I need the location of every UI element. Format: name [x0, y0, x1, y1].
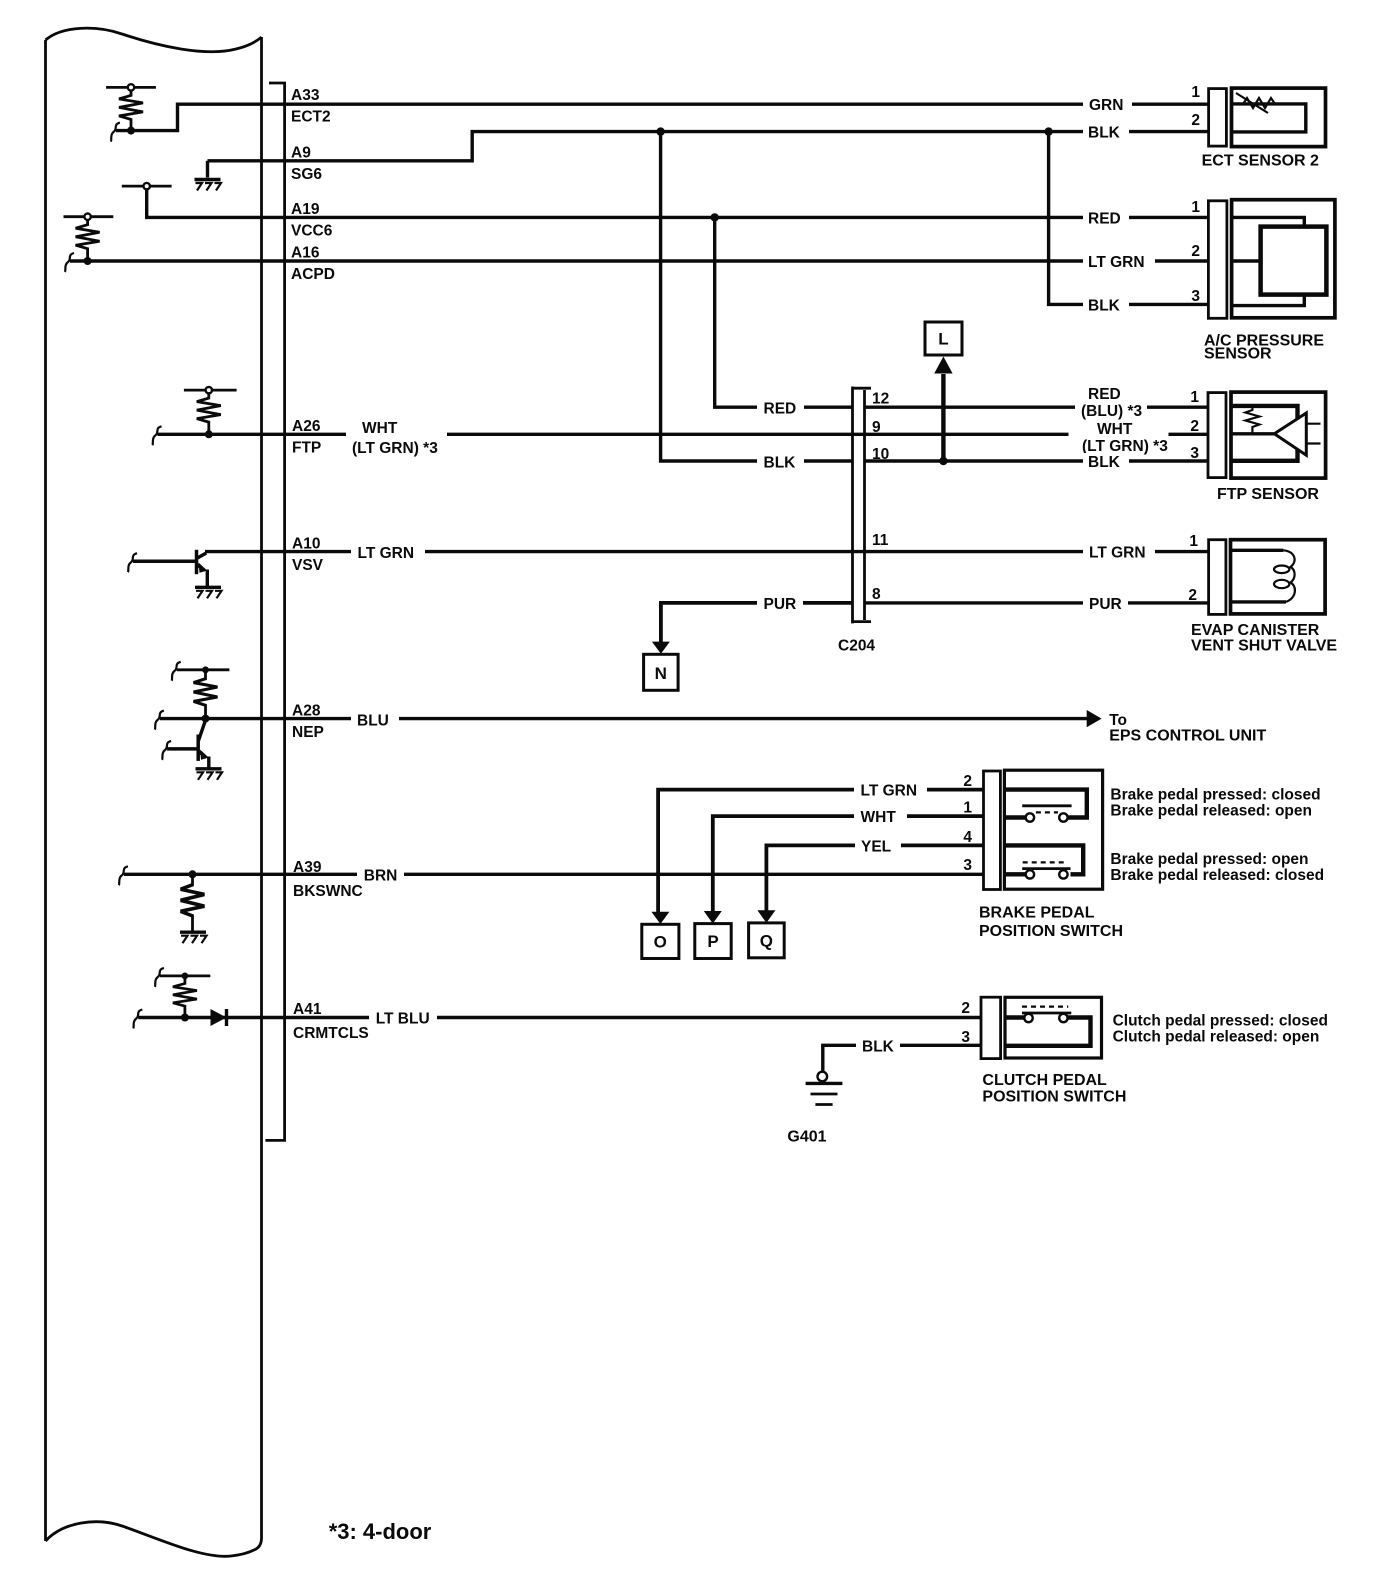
hook at A33 internal wire end — [111, 123, 120, 142]
wire color label WHT (LT GRN) *3 left — [346, 417, 447, 457]
svg-text:1: 1 — [963, 800, 972, 817]
svg-text:A41: A41 — [293, 1001, 322, 1018]
hook at A16 internal wire end — [65, 253, 74, 272]
connector C204 — [853, 387, 872, 624]
EVAP canister vent shut valve connector — [1209, 540, 1226, 615]
wire color label PUR left of C204 — [757, 595, 803, 613]
brake switch upper contact set (pins 2-1) — [1004, 790, 1086, 822]
svg-text:BLU: BLU — [357, 713, 389, 730]
svg-text:Clutch pedal pressed: closed: Clutch pedal pressed: closed — [1113, 1013, 1328, 1030]
ground in ECM on A9 — [195, 161, 222, 191]
svg-text:GRN: GRN — [1089, 97, 1123, 114]
A/C pressure sensor element square — [1261, 227, 1327, 295]
svg-text:PUR: PUR — [1089, 596, 1122, 613]
connector box O — [642, 924, 679, 958]
resistor to ground in ECM on A39 — [180, 870, 207, 943]
svg-text:A10: A10 — [292, 536, 320, 553]
wire color label RED (BLU) *3 right — [1075, 384, 1147, 420]
wire color label BLK right — [1083, 453, 1129, 471]
A/C pressure sensor body — [1232, 200, 1335, 318]
svg-text:BLK: BLK — [1088, 454, 1121, 471]
wire color label PUR right — [1083, 595, 1128, 613]
svg-text:NEP: NEP — [292, 724, 324, 741]
wire BLK branch to A/C pressure sensor pin 3 — [1049, 132, 1208, 305]
wire color label WHT (LT GRN) *3 right — [1069, 420, 1169, 455]
svg-text:BRAKE PEDAL: BRAKE PEDAL — [979, 905, 1095, 922]
solenoid coil inside EVAP valve — [1231, 550, 1295, 602]
svg-text:8: 8 — [872, 586, 881, 603]
brake pedal position switch body — [1004, 770, 1102, 889]
svg-text:RED: RED — [1088, 210, 1121, 227]
svg-text:A19: A19 — [291, 201, 320, 218]
wire A19/VCC6 to A/C pressure sensor pin 1 (RED) — [147, 189, 1209, 217]
svg-text:(BLU) *3: (BLU) *3 — [1081, 403, 1143, 420]
svg-text:CRMTCLS: CRMTCLS — [293, 1025, 369, 1042]
svg-text:FTP SENSOR: FTP SENSOR — [1217, 486, 1319, 503]
wire color label BLK — [1083, 296, 1129, 314]
svg-text:RED: RED — [764, 400, 797, 417]
svg-text:RED: RED — [1088, 386, 1121, 403]
wire color label LT GRN — [854, 782, 927, 800]
svg-text:LT BLU: LT BLU — [376, 1011, 430, 1028]
arrowhead to EPS control unit — [1087, 710, 1102, 727]
svg-text:Brake pedal pressed: open: Brake pedal pressed: open — [1110, 851, 1308, 868]
svg-text:Clutch pedal released: open: Clutch pedal released: open — [1113, 1029, 1320, 1046]
svg-text:PUR: PUR — [764, 596, 797, 613]
svg-text:POSITION SWITCH: POSITION SWITCH — [979, 923, 1123, 940]
resistor in ECM on A41 — [155, 968, 210, 1022]
svg-text:BLK: BLK — [764, 454, 797, 471]
wire A10/VSV to C204 pin 11 to EVAP valve pin 1 (LT GRN) — [205, 550, 1208, 553]
svg-text:3: 3 — [1190, 445, 1199, 462]
svg-text:LT GRN: LT GRN — [1089, 545, 1146, 562]
wire color label RED left of C204 — [757, 399, 804, 417]
wire color label LT GRN right — [1083, 543, 1155, 562]
svg-text:LT GRN: LT GRN — [1088, 254, 1145, 271]
arrowhead to O — [651, 912, 669, 924]
svg-text:ACPD: ACPD — [291, 266, 335, 283]
wire BLK from junction to C204 pin 10 — [661, 132, 853, 461]
wire C204 pin 10 to FTP sensor pin 3 (BLK) — [865, 459, 1210, 462]
arrowhead to N — [652, 642, 670, 654]
wire color label BRN — [357, 866, 404, 884]
resistor in ECM on A28 — [172, 662, 230, 723]
svg-text:2: 2 — [1188, 587, 1197, 604]
svg-text:WHT: WHT — [362, 420, 398, 437]
svg-text:N: N — [655, 664, 667, 683]
junction of L-branch on BLK wire — [939, 457, 947, 465]
svg-text:EPS CONTROL UNIT: EPS CONTROL UNIT — [1109, 728, 1266, 745]
svg-text:VCC6: VCC6 — [291, 223, 333, 240]
svg-text:2: 2 — [1191, 243, 1200, 260]
svg-text:(LT GRN) *3: (LT GRN) *3 — [352, 440, 438, 457]
wire A26/FTP to C204 pin 9 to FTP sensor pin 2 (WHT / LT GRN *3) — [158, 433, 1210, 436]
wire color label LT BLU — [369, 1010, 437, 1028]
svg-text:3: 3 — [1191, 288, 1200, 305]
svg-text:WHT: WHT — [1097, 421, 1133, 438]
svg-text:C204: C204 — [838, 638, 875, 655]
wire C204 pin 12 to FTP sensor pin 1 (RED / BLU *3) — [865, 406, 1210, 409]
svg-text:EVAP CANISTER: EVAP CANISTER — [1191, 622, 1320, 639]
diode in ECM on A41 — [211, 1009, 227, 1026]
wire LT GRN brake switch pin 2 to O branch — [658, 790, 983, 912]
wire color label YEL — [855, 838, 901, 856]
svg-text:1: 1 — [1189, 533, 1198, 550]
hook at A28 internal wire end — [155, 711, 164, 730]
wire A9/SG6 to ECT sensor 2 pin 2 (BLK) — [208, 132, 1210, 161]
svg-text:FTP: FTP — [292, 440, 321, 457]
wire color label WHT — [854, 808, 907, 826]
svg-text:SG6: SG6 — [291, 166, 322, 183]
wire YEL brake switch pin 4 to Q branch — [766, 845, 983, 911]
svg-text:VSV: VSV — [292, 557, 324, 574]
svg-text:2: 2 — [1190, 418, 1199, 435]
clutch pedal position switch connector — [981, 997, 1001, 1058]
FTP sensor connector — [1208, 393, 1226, 478]
svg-text:BLK: BLK — [1088, 125, 1121, 142]
ECT sensor 2 connector — [1209, 89, 1227, 147]
wire RED from A19 junction to C204 pin 12 — [715, 217, 853, 407]
resistor in ECM on A33 — [106, 84, 156, 134]
svg-text:Brake pedal released: open: Brake pedal released: open — [1110, 803, 1312, 820]
FTP sensor body — [1231, 392, 1326, 478]
svg-text:A33: A33 — [291, 87, 320, 104]
brake switch lower contact set (pins 4-3) — [1004, 845, 1083, 878]
arrowhead to L — [934, 357, 952, 374]
svg-text:A39: A39 — [293, 859, 322, 876]
svg-text:3: 3 — [963, 857, 972, 874]
svg-text:POSITION SWITCH: POSITION SWITCH — [982, 1089, 1126, 1106]
wire color label BLK left of C204 — [757, 453, 804, 471]
wire A41/CRMTCLS to clutch switch pin 2 (LT BLU) — [138, 1016, 981, 1019]
arrowhead to Q — [757, 910, 775, 923]
svg-text:A9: A9 — [291, 145, 311, 162]
svg-text:LT GRN: LT GRN — [358, 545, 415, 562]
svg-text:Brake pedal pressed: closed: Brake pedal pressed: closed — [1110, 787, 1320, 804]
svg-text:12: 12 — [872, 391, 889, 408]
hook at A39 internal wire end — [119, 866, 128, 885]
wire color label RED — [1083, 209, 1129, 227]
wire A33/ECT2 to ECT sensor 2 pin 1 (GRN) — [116, 104, 1209, 130]
arrowhead to P — [704, 911, 722, 924]
thermistor element inside ECT sensor 2 — [1232, 93, 1306, 132]
svg-text:BKSWNC: BKSWNC — [293, 883, 363, 900]
svg-text:2: 2 — [963, 773, 972, 790]
ECM/PCM control unit outline — [46, 28, 262, 1556]
wire color label BLU — [351, 711, 399, 730]
svg-text:Brake pedal released: closed: Brake pedal released: closed — [1110, 867, 1324, 884]
hook at A41 internal wire end — [133, 1010, 142, 1029]
svg-text:9: 9 — [872, 419, 881, 436]
svg-text:CLUTCH PEDAL: CLUTCH PEDAL — [982, 1072, 1107, 1089]
connector box P — [695, 924, 731, 959]
svg-text:(LT GRN) *3: (LT GRN) *3 — [1082, 438, 1168, 455]
clutch pedal position switch body — [1005, 997, 1102, 1058]
svg-text:BRN: BRN — [364, 867, 398, 884]
svg-text:2: 2 — [961, 1000, 970, 1017]
wire color label GRN — [1083, 96, 1132, 114]
svg-text:1: 1 — [1190, 389, 1199, 406]
svg-text:BLK: BLK — [862, 1039, 895, 1056]
wire C204 pin 8 to N branch (PUR) — [661, 603, 853, 643]
brake pedal position switch connector — [984, 771, 1001, 890]
svg-text:WHT: WHT — [861, 809, 897, 826]
EVAP canister vent shut valve body — [1231, 540, 1326, 614]
ECM connector bracket — [265, 83, 284, 1140]
wire color label BLK — [856, 1038, 900, 1056]
svg-text:ECT2: ECT2 — [291, 109, 331, 126]
svg-text:SENSOR: SENSOR — [1204, 346, 1272, 363]
wire C204 pin 8 to EVAP valve pin 2 (PUR) — [865, 601, 1209, 604]
supply node in ECM on A19 — [122, 183, 172, 189]
svg-text:A16: A16 — [291, 245, 320, 262]
connector box L — [925, 322, 962, 355]
svg-text:YEL: YEL — [861, 839, 891, 856]
A/C pressure sensor connector — [1208, 201, 1227, 318]
hook at A26 internal wire end — [153, 426, 162, 445]
wire A28/NEP to EPS control unit (BLU) — [160, 717, 1087, 720]
connector box Q — [749, 923, 785, 958]
wire WHT brake switch pin 1 to P branch — [713, 816, 984, 912]
svg-text:A28: A28 — [292, 703, 321, 720]
transistor in ECM on A10 — [128, 550, 222, 599]
wire up-arrow branch to L — [941, 374, 945, 461]
svg-text:To: To — [1109, 712, 1127, 729]
ECT sensor 2 body — [1232, 88, 1326, 147]
wire color label LT GRN left — [351, 544, 425, 562]
svg-text:*3: 4-door: *3: 4-door — [329, 1519, 432, 1544]
svg-text:L: L — [938, 330, 948, 349]
svg-text:Q: Q — [760, 932, 773, 951]
A/C pressure sensor internal wiring — [1232, 217, 1305, 305]
wire BLK clutch switch pin 3 to G401 — [823, 1045, 981, 1071]
resistor in ECM on A26 — [184, 387, 237, 438]
wire A16/ACPD to A/C pressure sensor pin 2 (LT GRN) — [70, 259, 1208, 262]
svg-text:3: 3 — [961, 1029, 970, 1046]
svg-text:11: 11 — [872, 532, 889, 549]
svg-text:1: 1 — [1191, 84, 1200, 101]
svg-text:P: P — [707, 932, 718, 951]
resistor in ECM on A16 — [64, 214, 114, 266]
FTP sensor internal circuit — [1231, 406, 1298, 461]
svg-text:4: 4 — [963, 829, 972, 846]
svg-text:LT GRN: LT GRN — [861, 783, 918, 800]
svg-text:BLK: BLK — [1088, 297, 1121, 314]
clutch switch contact set (pins 2-3) — [1005, 1007, 1091, 1046]
FTP sensor amplifier triangle — [1274, 413, 1306, 455]
svg-text:2: 2 — [1191, 112, 1200, 129]
svg-text:G401: G401 — [787, 1129, 826, 1146]
svg-text:VENT SHUT VALVE: VENT SHUT VALVE — [1191, 638, 1337, 655]
junction BLK to A/C pressure sensor pin 3 — [1044, 127, 1052, 135]
svg-text:ECT SENSOR 2: ECT SENSOR 2 — [1202, 153, 1319, 170]
wire A39/BKSWNC to brake switch pin 3 (BRN) — [124, 873, 984, 876]
wire color label LT GRN — [1083, 253, 1155, 271]
svg-text:O: O — [654, 933, 667, 952]
FTP sensor output stubs — [1306, 424, 1320, 444]
connector box N — [644, 654, 679, 690]
transistor in ECM on A28 — [162, 720, 222, 780]
junction BLK to C204 pin 10 — [656, 127, 664, 135]
junction RED to C204 pin 12 — [711, 213, 719, 221]
ground G401 — [806, 1072, 843, 1105]
svg-text:A26: A26 — [292, 418, 321, 435]
wire color label BLK — [1083, 124, 1129, 142]
svg-text:1: 1 — [1191, 199, 1200, 216]
